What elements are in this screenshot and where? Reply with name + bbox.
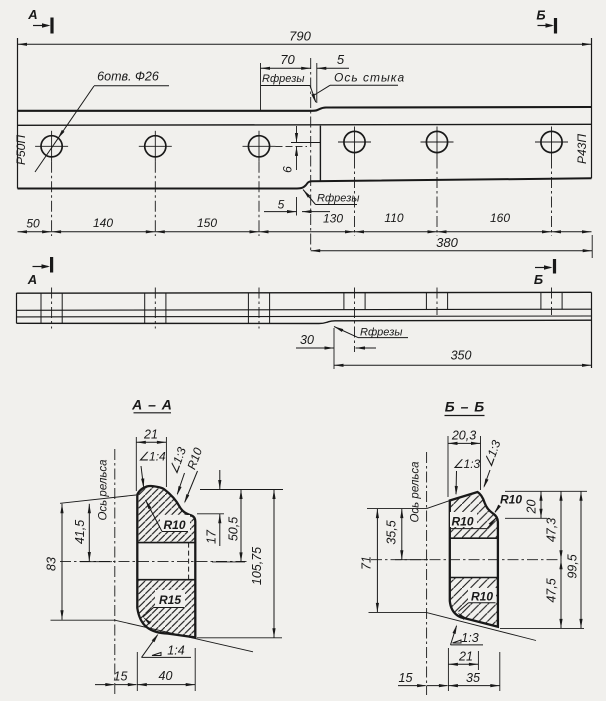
B-B dim 99,5: [580, 491, 582, 628]
A-A profile hatched lower band: [137, 580, 195, 638]
dim 6 offset: [291, 142, 320, 144]
svg-text:5: 5: [278, 198, 285, 212]
dim 5 bottom: [296, 197, 298, 216]
hole H5: [426, 131, 447, 152]
svg-text:83: 83: [45, 557, 59, 571]
svg-text:А: А: [27, 272, 37, 287]
A-A dim 17: [197, 513, 224, 515]
dim 790: [18, 43, 592, 45]
A-A label R15: [155, 590, 185, 607]
svg-text:47,5: 47,5: [545, 578, 559, 602]
svg-text:1:4: 1:4: [167, 644, 184, 658]
svg-text:380: 380: [436, 235, 458, 250]
hole H2: [145, 136, 166, 157]
B-B label R10 inner top: [450, 512, 477, 527]
dim chain 50/140/150/130/110/160: [18, 231, 592, 233]
B-B profile hatched lower band: [450, 578, 498, 627]
dim 5 top: [316, 63, 318, 103]
section mark A top: [50, 18, 53, 34]
A-A horizontal axis: [60, 560, 248, 562]
joint axis (Ось стыка) center line: [310, 58, 312, 251]
svg-text:40: 40: [159, 669, 173, 683]
A-A dim 105,75: [197, 637, 282, 639]
B-B dim 47,3: [560, 491, 562, 559]
svg-text:71: 71: [360, 556, 374, 570]
svg-text:R15: R15: [159, 593, 181, 607]
svg-text:Ось стыка: Ось стыка: [334, 71, 405, 85]
svg-text:1:3: 1:3: [461, 631, 478, 645]
svg-text:17: 17: [205, 529, 219, 544]
svg-text:5: 5: [337, 52, 345, 67]
svg-text:140: 140: [93, 216, 113, 230]
svg-text:Ось рельса: Ось рельса: [98, 459, 110, 520]
svg-text:∠1:3: ∠1:3: [453, 457, 481, 471]
A-A label R10 inner: [160, 515, 190, 532]
svg-text:47,3: 47,3: [545, 518, 559, 542]
B-B right top extension: [505, 490, 587, 492]
B-B label 1:3 bottom: [451, 644, 484, 646]
A-A 1:4 construction line: [96, 619, 115, 621]
B-B dim 20: [505, 517, 547, 519]
joint face line: [319, 126, 321, 181]
svg-text:35: 35: [466, 671, 480, 685]
A-A dim 21: [135, 437, 137, 491]
svg-text:350: 350: [451, 349, 472, 363]
svg-text:50: 50: [26, 217, 40, 231]
B-B horizontal axis: [371, 559, 561, 561]
svg-text:21: 21: [458, 650, 473, 664]
svg-text:130: 130: [323, 212, 343, 226]
svg-text:20: 20: [525, 500, 539, 515]
B-B dim 47,5: [560, 560, 562, 629]
svg-text:Б: Б: [534, 272, 543, 287]
svg-text:Б – Б: Б – Б: [445, 399, 485, 415]
dim 30: [333, 328, 335, 369]
svg-text:150: 150: [197, 216, 217, 230]
svg-text:R10: R10: [500, 493, 522, 507]
svg-text:R10: R10: [163, 518, 185, 532]
svg-text:А – А: А – А: [131, 397, 173, 413]
A-A right top extension: [200, 489, 283, 491]
B-B dim 20,3: [447, 436, 449, 497]
section mark A bottom: [50, 257, 53, 273]
svg-text:R10: R10: [471, 590, 493, 604]
hole H6: [541, 131, 562, 152]
top view: joint bar outline: [17, 38, 19, 189]
A-A dim 50,5: [212, 561, 245, 563]
svg-text:110: 110: [384, 211, 403, 225]
A-A bottom dims 15 / 40: [136, 652, 138, 691]
svg-text:21: 21: [143, 428, 158, 442]
dim 350: [334, 364, 592, 366]
A-A label 1:4 bottom: [142, 656, 192, 658]
A-A bolt hole section lines: [137, 542, 195, 544]
A-A profile outline: [137, 486, 195, 637]
hole H1: [41, 136, 62, 157]
side view outline: [16, 293, 18, 323]
dim 70: [260, 63, 262, 110]
B-B label R10 lower: [468, 588, 496, 603]
svg-text:30: 30: [300, 333, 314, 347]
B-B bottom dims 15 / 21 / 35: [447, 648, 449, 691]
svg-text:Р43П: Р43П: [575, 134, 589, 164]
svg-text:∠1:4: ∠1:4: [138, 450, 166, 464]
A-A dim 41,5: [60, 495, 136, 503]
B-B profile hatched upper band: [450, 492, 498, 538]
svg-text:Rфрезы: Rфрезы: [262, 73, 304, 85]
svg-text:105,75: 105,75: [250, 547, 264, 585]
B-B left top extension: [367, 508, 427, 510]
svg-text:Rфрезы: Rфрезы: [317, 193, 359, 205]
B-B bottom right extension: [500, 627, 584, 629]
svg-text:Б: Б: [536, 8, 545, 23]
svg-text:Р50П: Р50П: [14, 135, 28, 165]
hole H3: [248, 136, 269, 157]
B-B dim 71: [376, 509, 378, 613]
svg-text:R10: R10: [451, 515, 473, 529]
svg-text:35,5: 35,5: [385, 520, 399, 544]
B-B bolt hole section lines: [450, 537, 498, 539]
section mark B bottom: [553, 259, 556, 274]
A-A dim 83: [51, 619, 97, 621]
svg-text:160: 160: [490, 211, 510, 225]
svg-text:99,5: 99,5: [566, 554, 580, 578]
svg-text:6: 6: [281, 166, 295, 173]
B-B profile outline: [450, 492, 498, 627]
svg-text:Rфрезы: Rфрезы: [360, 327, 402, 339]
B-B 1:3 construction line: [369, 611, 427, 613]
svg-text:6отв. Ф26: 6отв. Ф26: [97, 70, 159, 84]
svg-text:41,5: 41,5: [73, 520, 87, 544]
svg-text:20,3: 20,3: [451, 429, 476, 443]
side view hole marks: [40, 293, 42, 323]
svg-text:Ось рельса: Ось рельса: [410, 461, 422, 522]
svg-text:15: 15: [114, 670, 128, 684]
svg-text:А: А: [27, 7, 37, 22]
rail axis line B-B: [426, 452, 428, 695]
svg-text:15: 15: [399, 671, 413, 685]
B-B dim 35,5: [395, 559, 428, 561]
A-A profile hatched upper band: [137, 486, 195, 543]
svg-text:50,5: 50,5: [227, 517, 241, 541]
rail axis line A-A: [114, 449, 116, 694]
svg-text:790: 790: [289, 29, 311, 44]
section mark B top: [554, 18, 557, 34]
svg-text:70: 70: [280, 52, 295, 67]
hole H4: [344, 131, 365, 152]
dim 380: [591, 235, 593, 258]
